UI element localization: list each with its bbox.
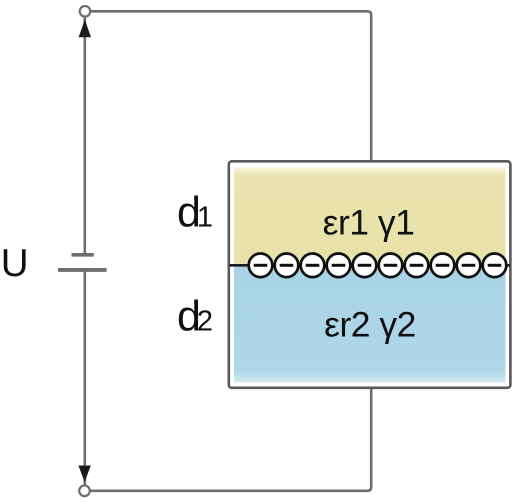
svg-text:εr1 γ1: εr1 γ1 [323,203,415,243]
surface charge q9 [457,253,481,277]
battery V short plate [72,253,94,257]
surface charge q5 [353,253,377,277]
battery V long plate [58,268,107,272]
wire top from source plus terminal to right branch [91,11,372,161]
current arrow up [79,20,91,38]
svg-text:U: U [1,242,29,285]
dielectric layer 1 fill [234,168,506,266]
wire left upper from top terminal to battery [84,17,87,254]
wire left lower from battery to bottom terminal [84,272,87,486]
surface charge q2 [275,253,299,277]
surface charge q3 [301,253,325,277]
surface charge q6 [379,253,403,277]
terminal bottom [79,486,90,497]
surface charge q4 [327,253,351,277]
surface charge q10 [483,253,507,277]
svg-text:εr2 γ2: εr2 γ2 [324,305,416,345]
svg-text:d1: d1 [177,189,213,237]
surface charge q1 [249,253,273,277]
surface charge q8 [431,253,455,277]
terminal top [80,6,91,17]
surface charge q7 [405,253,429,277]
dielectric layer 2 fill [234,266,506,383]
interface line between dielectrics [230,264,510,267]
wire right lower from capacitor box bottom to bottom rail [91,387,372,491]
current arrow down [78,466,90,483]
capacitor box border [229,161,511,387]
svg-text:d2: d2 [177,293,213,341]
